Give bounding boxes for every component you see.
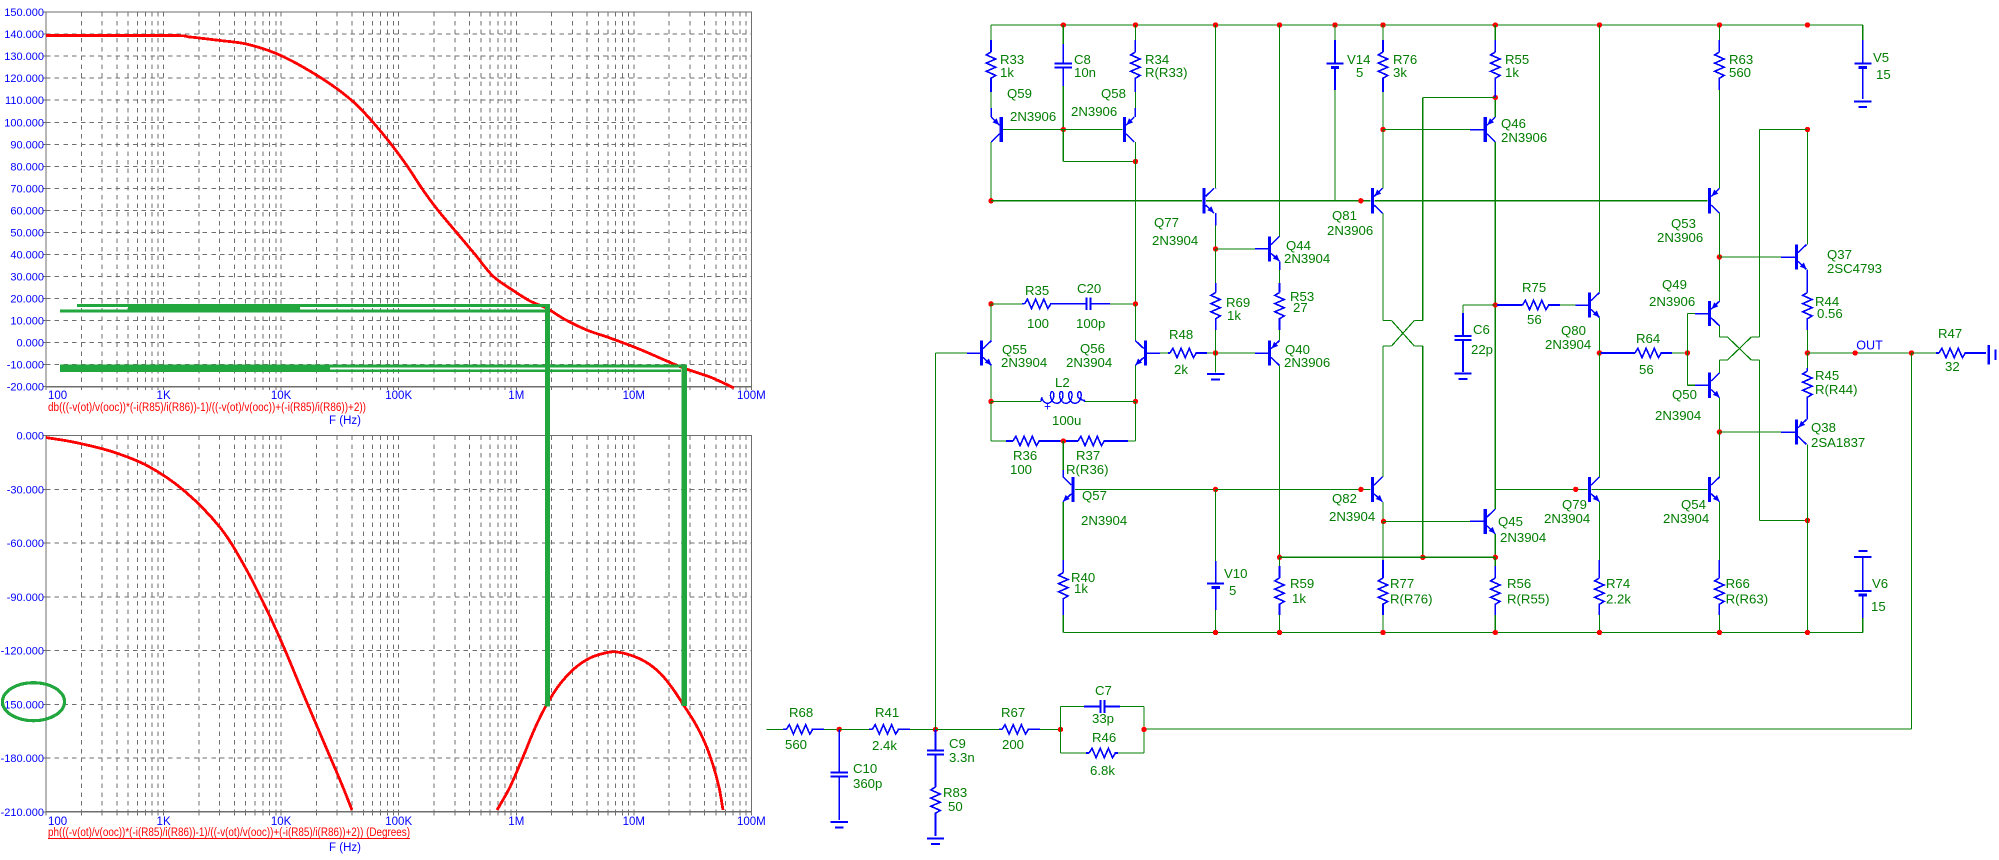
resistor R66 bbox=[1718, 560, 1720, 578]
wire C8 top lead bbox=[1062, 25, 1064, 44]
transistor Q57 2N3904 bbox=[1071, 477, 1074, 502]
svg-text:20.000: 20.000 bbox=[10, 294, 44, 306]
wire L wire top to Q37 collector bbox=[1760, 129, 1808, 131]
red phase curve right branch bbox=[497, 652, 723, 810]
resistor R75 bbox=[1497, 304, 1523, 306]
wire R53 to Q40 emitter bbox=[1279, 330, 1281, 341]
wire Q79 collector wire bbox=[1598, 353, 1600, 477]
inductor L2 bbox=[1041, 392, 1085, 404]
resistor R76 bbox=[1382, 40, 1384, 52]
wire Q59-Q58 base rail bbox=[1003, 129, 1122, 131]
svg-text:R45: R45 bbox=[1815, 368, 1839, 383]
wire Q82 emitter to R77 bbox=[1382, 521, 1384, 560]
battery V6 (with ground mark) bbox=[1858, 550, 1867, 552]
svg-text:2N3904: 2N3904 bbox=[1081, 513, 1127, 528]
wire R33 to Q59 emitter bbox=[990, 92, 992, 108]
svg-text:C7: C7 bbox=[1095, 683, 1112, 698]
green marker vertical at 2MHz bbox=[545, 304, 550, 706]
node Q77 emitter / Q44 base bbox=[1213, 246, 1218, 251]
wire R63 top lead bbox=[1718, 25, 1720, 40]
capacitor C9 bbox=[935, 729, 937, 750]
node Q38 collector / X2 wire bbox=[1805, 518, 1810, 523]
node bottom rail junction bbox=[1717, 630, 1722, 635]
wire R44 to OUT node bbox=[1806, 330, 1808, 353]
svg-text:1k: 1k bbox=[1074, 581, 1088, 596]
node Q59/Q58 base junction bbox=[1061, 127, 1066, 132]
svg-text:2N3904: 2N3904 bbox=[1066, 355, 1112, 370]
wire R76 node to Q81 emitter bbox=[1382, 130, 1384, 189]
wire riser to Q55 base bbox=[935, 353, 937, 729]
node bottom rail junction bbox=[1493, 630, 1498, 635]
node Q50 emitter / Q38 base bbox=[1717, 429, 1722, 434]
resistor R46 bbox=[1086, 752, 1089, 754]
svg-text:100M: 100M bbox=[737, 816, 766, 828]
resistor R63 bbox=[1718, 40, 1720, 52]
svg-text:50.000: 50.000 bbox=[10, 228, 44, 240]
svg-text:R(R33): R(R33) bbox=[1145, 65, 1188, 80]
svg-text:Q81: Q81 bbox=[1332, 208, 1357, 223]
wire bottom 0V rail bbox=[1063, 632, 1863, 634]
wire Q80 emitter wire bbox=[1598, 318, 1600, 354]
wire Q44 base wire bbox=[1216, 248, 1255, 250]
wire base to Q58 collector L-wire bbox=[1062, 130, 1064, 162]
wire Q46 base wire bbox=[1383, 129, 1470, 131]
resistor R35 bbox=[1022, 303, 1025, 305]
wire L2 left riser to R36 bbox=[990, 401, 992, 441]
wire R63-Q53 emitter bbox=[1718, 90, 1720, 188]
svg-text:6.8k: 6.8k bbox=[1090, 763, 1115, 778]
wire Q40 collector wire bbox=[1279, 366, 1281, 558]
wire L2 right riser to R37 bbox=[1134, 401, 1136, 441]
wire R35 left wire bbox=[991, 303, 1022, 305]
svg-text:2.4k: 2.4k bbox=[872, 738, 897, 753]
svg-text:200: 200 bbox=[1002, 737, 1024, 752]
svg-text:+: + bbox=[1044, 400, 1051, 414]
svg-text:R56: R56 bbox=[1507, 576, 1531, 591]
svg-text:100M: 100M bbox=[737, 390, 766, 402]
svg-text:2SC4793: 2SC4793 bbox=[1827, 261, 1882, 276]
svg-text:R46: R46 bbox=[1092, 730, 1116, 745]
wire X2 right lower riser bbox=[1759, 360, 1761, 521]
svg-text:56: 56 bbox=[1527, 312, 1542, 327]
wire Q40 base wire bbox=[1216, 352, 1255, 354]
svg-text:3.3n: 3.3n bbox=[949, 750, 975, 765]
wire R33 top lead bbox=[990, 25, 992, 40]
svg-text:R37: R37 bbox=[1076, 448, 1100, 463]
node bottom rail junction bbox=[1805, 630, 1810, 635]
wire C6 top wire bbox=[1463, 304, 1495, 306]
wire R75 to Q80 base bbox=[1560, 304, 1575, 306]
wire C7 top right wire bbox=[1120, 706, 1144, 708]
transistor Q81 2N3906 bbox=[1371, 188, 1374, 213]
svg-text:R41: R41 bbox=[875, 705, 899, 720]
node bottom rail junction bbox=[1380, 630, 1385, 635]
green marker -10dB line bbox=[60, 365, 687, 368]
svg-text:R(R36): R(R36) bbox=[1066, 462, 1109, 477]
wire R45 top wire bbox=[1806, 353, 1808, 368]
wire Q77 emitter wire bbox=[1215, 226, 1217, 249]
plot2 vertical gridlines bbox=[80, 436, 82, 812]
svg-text:R48: R48 bbox=[1169, 327, 1193, 342]
wire R41 to C9 node bbox=[910, 728, 936, 730]
svg-text:C6: C6 bbox=[1473, 322, 1490, 337]
svg-text:22p: 22p bbox=[1471, 342, 1493, 357]
node Q56 emitter / L2 right bbox=[1133, 399, 1138, 404]
transistor Q37 2SC4793 bbox=[1795, 244, 1798, 269]
svg-text:Q82: Q82 bbox=[1332, 491, 1357, 506]
node OUT / feedback bbox=[1909, 350, 1914, 355]
wire Q56 base to R48 bbox=[1160, 352, 1168, 354]
wire base rail to Q77 bbox=[991, 200, 1202, 202]
svg-text:30.000: 30.000 bbox=[10, 272, 44, 284]
wire R74 to bottom rail bbox=[1598, 615, 1600, 633]
node C6 / R75 junction bbox=[1493, 302, 1498, 307]
svg-text:Q38: Q38 bbox=[1811, 420, 1836, 435]
svg-text:1k: 1k bbox=[1000, 65, 1014, 80]
wire Q56 collector wire bbox=[1134, 304, 1136, 341]
svg-text:2N3904: 2N3904 bbox=[1329, 509, 1375, 524]
wire Q49 emitter wire bbox=[1718, 257, 1720, 301]
svg-text:0.000: 0.000 bbox=[16, 431, 44, 443]
svg-text:10.000: 10.000 bbox=[10, 316, 44, 328]
svg-text:1k: 1k bbox=[1505, 65, 1519, 80]
node top rail junction bbox=[1332, 22, 1337, 27]
node C7R46 left bbox=[1058, 727, 1063, 732]
wire Q57 emitter wire bbox=[1062, 502, 1064, 560]
terminal at R47 output bbox=[1988, 345, 1990, 364]
red phase curve left branch bbox=[46, 438, 352, 811]
resistor R44 bbox=[1806, 270, 1808, 293]
svg-text:60.000: 60.000 bbox=[10, 205, 44, 217]
node R36/R37 midpoint bbox=[1061, 438, 1066, 443]
wire C7 top left wire bbox=[1061, 706, 1085, 708]
wire Q50 base L-wire bbox=[1686, 353, 1688, 385]
wire R64 right wire bbox=[1672, 352, 1687, 354]
transistor Q80 2N3904 bbox=[1588, 292, 1591, 317]
wire X2 right riser bbox=[1759, 130, 1761, 338]
node top rail junction bbox=[1493, 22, 1498, 27]
node R48 / R69 / ground bbox=[1213, 350, 1218, 355]
node top rail junction bbox=[1277, 22, 1282, 27]
svg-text:R68: R68 bbox=[789, 705, 813, 720]
resistor R64 bbox=[1601, 352, 1635, 354]
node Q59 collector / Q77 base rail bbox=[988, 198, 993, 203]
resistor R74 bbox=[1598, 560, 1600, 578]
svg-text:2N3906: 2N3906 bbox=[1501, 130, 1547, 145]
node C20 right junction bbox=[1133, 301, 1138, 306]
transistor Q56 2N3904 bbox=[1144, 340, 1147, 365]
svg-text:5: 5 bbox=[1356, 65, 1363, 80]
wire R59 to bottom rail bbox=[1279, 615, 1281, 633]
wire V14 top lead bbox=[1334, 25, 1336, 40]
svg-text:15: 15 bbox=[1871, 599, 1886, 614]
transistor Q45 2N3904 bbox=[1484, 509, 1487, 534]
node R76 / Q46 base bbox=[1380, 127, 1385, 132]
svg-text:V10: V10 bbox=[1224, 566, 1247, 581]
svg-text:100u: 100u bbox=[1052, 413, 1081, 428]
bode magnitude plot frame bbox=[46, 12, 751, 387]
wire C8 to base rail bbox=[1062, 86, 1064, 130]
svg-text:R(R76): R(R76) bbox=[1390, 592, 1433, 607]
wire C20 right wire bbox=[1110, 303, 1135, 305]
wire Q44 emitter to R53 bbox=[1279, 270, 1281, 283]
node R55 / crossover wire bbox=[1493, 95, 1498, 100]
transistor Q49 2N3906 bbox=[1708, 301, 1711, 326]
wire X1 right down to output rail bbox=[1422, 346, 1424, 557]
wire Q44 collector wire bbox=[1279, 25, 1281, 236]
wire R64 left wire bbox=[1599, 352, 1601, 354]
transistor Q53 2N3906 bbox=[1708, 188, 1711, 213]
wire Q37 collector wire bbox=[1806, 130, 1808, 245]
transistor Q82 2N3904 bbox=[1371, 477, 1374, 502]
svg-text:R77: R77 bbox=[1390, 576, 1414, 591]
wire OUT wire bbox=[1807, 352, 1855, 354]
svg-text:Q50: Q50 bbox=[1672, 387, 1697, 402]
transistor Q55 2N3904 bbox=[980, 340, 983, 365]
wire crossover X1 bbox=[1383, 320, 1392, 322]
svg-text:R67: R67 bbox=[1001, 705, 1025, 720]
svg-text:1k: 1k bbox=[1292, 591, 1306, 606]
ground (C10) bbox=[831, 821, 848, 823]
resistor R33 bbox=[990, 40, 992, 52]
node Q57 base / V10 bbox=[1213, 487, 1218, 492]
transistor Q46 2N3906 bbox=[1484, 117, 1487, 142]
svg-text:10K: 10K bbox=[271, 390, 292, 402]
svg-text:R59: R59 bbox=[1290, 576, 1314, 591]
svg-text:33p: 33p bbox=[1092, 711, 1114, 726]
svg-text:27: 27 bbox=[1293, 300, 1308, 315]
svg-text:10M: 10M bbox=[623, 816, 645, 828]
svg-text:1k: 1k bbox=[1227, 308, 1241, 323]
wire R47 left wire bbox=[1911, 352, 1936, 354]
svg-text:R74: R74 bbox=[1606, 576, 1630, 591]
node bottom rail junction bbox=[1597, 630, 1602, 635]
node Q80 emitter / R64 bbox=[1597, 350, 1602, 355]
svg-text:1M: 1M bbox=[508, 816, 524, 828]
svg-text:56: 56 bbox=[1639, 362, 1654, 377]
svg-text:150.000: 150.000 bbox=[4, 7, 44, 19]
transistor Q54 2N3904 bbox=[1708, 477, 1711, 502]
resistor R53 bbox=[1279, 283, 1281, 293]
node Q82 base junction bbox=[1358, 487, 1363, 492]
svg-text:110.000: 110.000 bbox=[5, 95, 44, 107]
wire C7R46 left riser bbox=[1060, 707, 1062, 754]
transistor Q50 2N3904 bbox=[1708, 373, 1711, 398]
svg-text:10n: 10n bbox=[1074, 65, 1096, 80]
green ellipse around -150.000 bbox=[3, 683, 65, 721]
wire R36R37 mid to Q57 collector bbox=[1062, 441, 1064, 470]
wire R68 to C10 node bbox=[824, 728, 839, 730]
wire R66 to bottom rail bbox=[1718, 615, 1720, 633]
plot2 y axis labels bbox=[43, 435, 47, 437]
resistor R68 bbox=[783, 728, 786, 730]
resistor R67 bbox=[999, 728, 1002, 730]
svg-text:2N3906: 2N3906 bbox=[1284, 355, 1330, 370]
ground (C9 R83) bbox=[927, 838, 944, 840]
svg-text:-210.000: -210.000 bbox=[1, 807, 44, 819]
wire Q55 emitter wire bbox=[990, 366, 992, 402]
wire R37 right cap bbox=[1128, 440, 1135, 442]
svg-text:2N3904: 2N3904 bbox=[1655, 408, 1701, 423]
svg-text:C10: C10 bbox=[853, 761, 877, 776]
node top rail junction bbox=[1061, 22, 1066, 27]
svg-text:C20: C20 bbox=[1077, 281, 1101, 296]
svg-text:F (Hz): F (Hz) bbox=[329, 842, 361, 854]
wire Q37 base wire bbox=[1719, 256, 1781, 258]
svg-text:-120.000: -120.000 bbox=[1, 646, 44, 658]
node Q37 collector / V5 wire bbox=[1805, 127, 1810, 132]
transistor Q77 2N3904 bbox=[1202, 188, 1205, 213]
node Q82 emitter / Q45 base bbox=[1381, 519, 1386, 524]
capacitor C7 bbox=[1084, 706, 1100, 708]
svg-text:Q46: Q46 bbox=[1501, 116, 1526, 131]
node bottom rail junction bbox=[1277, 630, 1282, 635]
wire driver base rail bbox=[1495, 488, 1587, 490]
svg-text:Q80: Q80 bbox=[1561, 323, 1586, 338]
wire R56 to bottom rail bbox=[1494, 615, 1496, 633]
node C10 junction bbox=[837, 727, 842, 732]
resistor R41 bbox=[869, 728, 872, 730]
node Q40 collector / R59 / output rail bbox=[1277, 555, 1282, 560]
svg-text:2k: 2k bbox=[1174, 362, 1188, 377]
svg-text:2N3906: 2N3906 bbox=[1657, 230, 1703, 245]
bode phase plot frame bbox=[46, 436, 751, 812]
node Q79 base junction bbox=[1573, 487, 1578, 492]
wire rail Q40-X1-Q45 bbox=[1280, 556, 1496, 558]
battery V10 bbox=[1215, 561, 1217, 584]
svg-text:2N3904: 2N3904 bbox=[1545, 337, 1591, 352]
wire Q59 collector wire bbox=[990, 142, 992, 201]
node top rail junction bbox=[1133, 22, 1138, 27]
ground (C6) bbox=[1454, 372, 1471, 374]
svg-text:100: 100 bbox=[1027, 316, 1049, 331]
transistor Q58 2N3906 bbox=[1123, 117, 1126, 142]
node R35 branch left bbox=[988, 301, 993, 306]
wire crossover X2 bbox=[1719, 336, 1727, 338]
node R64 / Q49 Q50 bases bbox=[1685, 350, 1690, 355]
plot1 y axis labels bbox=[43, 11, 47, 13]
red gain curve bbox=[46, 35, 734, 388]
svg-text:-60.000: -60.000 bbox=[7, 538, 44, 550]
svg-text:Q53: Q53 bbox=[1671, 216, 1696, 231]
svg-text:-30.000: -30.000 bbox=[7, 484, 44, 496]
wire Q58 collector wire bbox=[1134, 142, 1136, 162]
resistor R34 bbox=[1134, 40, 1136, 52]
wire feedback wire OUT to input network bbox=[1910, 353, 1912, 729]
svg-text:Q56: Q56 bbox=[1080, 341, 1105, 356]
resistor R40 bbox=[1062, 560, 1064, 573]
capacitor C8 bbox=[1062, 44, 1064, 63]
wire Q37 emitter wire bbox=[1806, 270, 1808, 293]
svg-text:-20.000: -20.000 bbox=[7, 382, 44, 394]
svg-text:100p: 100p bbox=[1076, 316, 1105, 331]
node OUT label attach bbox=[1853, 350, 1858, 355]
svg-text:db(((-v(ot)/v(ooc))*(-i(R85)/i: db(((-v(ot)/v(ooc))*(-i(R85)/i(R86))-1)/… bbox=[48, 402, 366, 414]
resistor R47 bbox=[1936, 352, 1939, 354]
wire R34 top lead bbox=[1134, 25, 1136, 40]
svg-text:2N3904: 2N3904 bbox=[1152, 233, 1198, 248]
wire V10 bottom wire bbox=[1215, 610, 1217, 633]
svg-text:F (Hz): F (Hz) bbox=[329, 415, 361, 427]
node top rail junction bbox=[1380, 22, 1385, 27]
wire Q56 emitter wire bbox=[1134, 366, 1136, 402]
svg-text:-10.000: -10.000 bbox=[7, 360, 44, 372]
svg-text:1K: 1K bbox=[157, 390, 171, 402]
svg-text:40.000: 40.000 bbox=[10, 250, 44, 262]
svg-text:R64: R64 bbox=[1636, 331, 1660, 346]
wire input stub bbox=[767, 728, 783, 730]
svg-text:2N3906: 2N3906 bbox=[1010, 109, 1056, 124]
wire R76 top lead bbox=[1382, 25, 1384, 40]
resistor R69 bbox=[1215, 283, 1217, 293]
transistor Q44 2N3904 bbox=[1268, 236, 1271, 261]
node bottom rail junction bbox=[1213, 630, 1218, 635]
svg-text:2.2k: 2.2k bbox=[1606, 592, 1631, 607]
wire Q80 collector wire bbox=[1598, 25, 1600, 293]
ground (R48 node) bbox=[1207, 373, 1224, 375]
svg-text:100K: 100K bbox=[385, 390, 412, 402]
svg-text:Q79: Q79 bbox=[1562, 497, 1587, 512]
svg-text:2N3904: 2N3904 bbox=[1001, 355, 1047, 370]
svg-text:V6: V6 bbox=[1872, 576, 1888, 591]
svg-text:R83: R83 bbox=[943, 785, 967, 800]
wire R76 to Q46 base node bbox=[1382, 92, 1384, 130]
node top rail junction bbox=[1717, 22, 1722, 27]
node top rail junction bbox=[1213, 22, 1218, 27]
wire R46 left wire bbox=[1061, 752, 1087, 754]
svg-text:70.000: 70.000 bbox=[10, 183, 44, 195]
svg-text:2N3904: 2N3904 bbox=[1500, 530, 1546, 545]
wire C9 node to R67 bbox=[936, 728, 1000, 730]
svg-text:1M: 1M bbox=[508, 390, 524, 402]
capacitor C20 bbox=[1056, 303, 1086, 305]
svg-text:L2: L2 bbox=[1055, 375, 1070, 390]
wire Q53 collector wire bbox=[1718, 213, 1720, 257]
svg-text:-90.000: -90.000 bbox=[7, 592, 44, 604]
transistor Q40 2N3906 bbox=[1268, 340, 1271, 365]
plot1 horizontal gridlines bbox=[46, 33, 751, 35]
svg-text:140.000: 140.000 bbox=[4, 29, 44, 41]
wire Q50 collector from X2 bbox=[1718, 360, 1720, 373]
green marker vertical at 25MHz bbox=[682, 365, 687, 706]
resistor R55 bbox=[1494, 40, 1496, 52]
wire R55-Q46 emitter bbox=[1494, 98, 1496, 118]
node OUT left bbox=[1805, 350, 1810, 355]
wire ground stub below R48 node bbox=[1215, 353, 1217, 373]
svg-text:Q77: Q77 bbox=[1154, 215, 1179, 230]
wire Q46 collector wire bbox=[1494, 142, 1496, 305]
wire bias rail V14 Q81 Q53 bbox=[1206, 200, 1371, 202]
wire V10 top wire bbox=[1215, 489, 1217, 561]
green marker 15dB line bbox=[77, 304, 548, 307]
wire R55 top lead bbox=[1494, 25, 1496, 40]
svg-text:560: 560 bbox=[785, 737, 807, 752]
svg-text:R(R44): R(R44) bbox=[1815, 382, 1858, 397]
resistor R36 bbox=[1006, 440, 1013, 442]
capacitor C6 bbox=[1462, 313, 1464, 336]
svg-text:ph(((-v(ot)/v(ooc))*(-i(R85)/i: ph(((-v(ot)/v(ooc))*(-i(R85)/i(R86))-1)/… bbox=[48, 827, 410, 839]
wire R46 right wire bbox=[1118, 752, 1144, 754]
wire R69 bottom wire bbox=[1215, 330, 1217, 353]
svg-text:90.000: 90.000 bbox=[10, 139, 44, 151]
wire R34 to Q58 emitter bbox=[1134, 92, 1136, 108]
svg-text:3k: 3k bbox=[1393, 65, 1407, 80]
svg-text:32: 32 bbox=[1945, 359, 1960, 374]
wire R77 to bottom rail bbox=[1382, 615, 1384, 633]
capacitor C10 bbox=[838, 729, 840, 772]
svg-text:2N3906: 2N3906 bbox=[1071, 104, 1117, 119]
wire R67 to block bbox=[1040, 728, 1061, 730]
